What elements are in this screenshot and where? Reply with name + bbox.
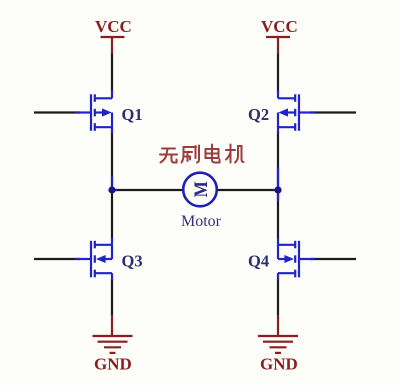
svg-text:VCC: VCC — [261, 17, 298, 36]
svg-text:Q2: Q2 — [248, 105, 269, 124]
svg-text:GND: GND — [260, 354, 298, 373]
svg-text:M: M — [190, 181, 211, 197]
svg-text:Q4: Q4 — [248, 252, 269, 271]
svg-text:GND: GND — [94, 354, 132, 373]
svg-text:Motor: Motor — [181, 213, 222, 230]
svg-text:Q3: Q3 — [122, 252, 143, 271]
svg-text:VCC: VCC — [95, 17, 132, 36]
svg-text:Q1: Q1 — [122, 105, 143, 124]
